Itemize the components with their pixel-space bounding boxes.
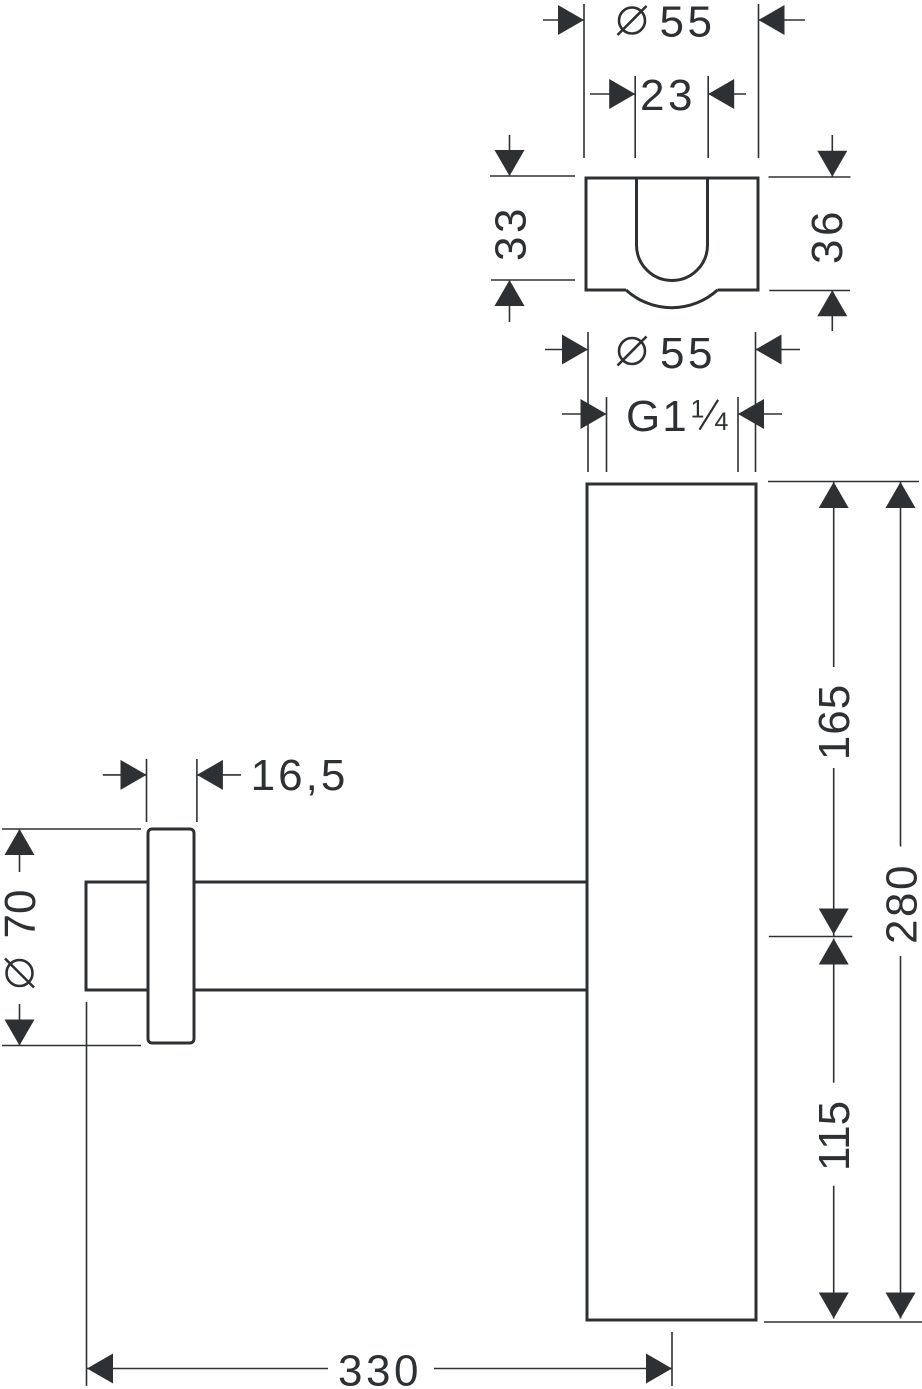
svg-text:36: 36	[803, 208, 852, 264]
svg-text:G1: G1	[626, 392, 689, 441]
svg-text:115: 115	[810, 1101, 859, 1171]
svg-text:1: 1	[691, 396, 705, 424]
svg-text:4: 4	[715, 408, 729, 436]
svg-text:165: 165	[810, 684, 859, 760]
svg-text:70: 70	[0, 890, 45, 939]
svg-text:280: 280	[878, 863, 922, 944]
svg-text:33: 33	[487, 205, 536, 261]
svg-text:55: 55	[660, 329, 716, 378]
svg-text:330: 330	[338, 1347, 422, 1389]
svg-text:55: 55	[660, 0, 716, 47]
svg-text:16,5: 16,5	[251, 751, 349, 800]
svg-text:23: 23	[640, 71, 696, 120]
